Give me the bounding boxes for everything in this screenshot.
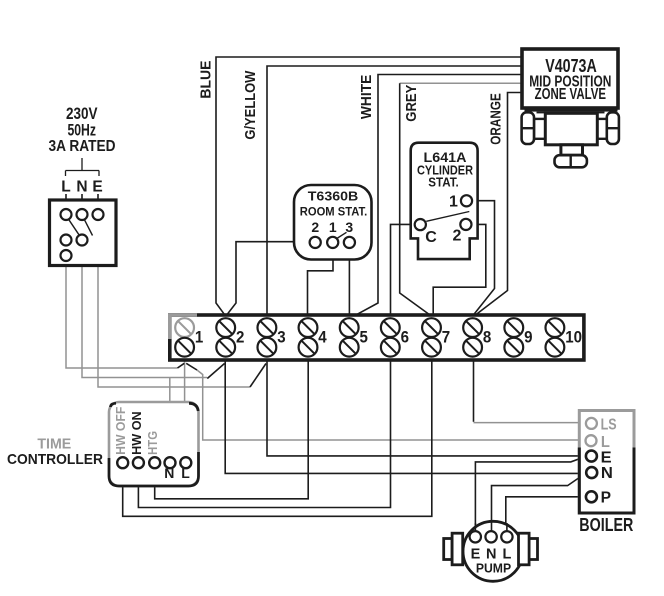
- svg-text:ZONE VALVE: ZONE VALVE: [535, 86, 607, 103]
- svg-text:TIME: TIME: [37, 435, 71, 452]
- svg-text:GREY: GREY: [403, 85, 420, 122]
- svg-text:8: 8: [483, 328, 491, 346]
- svg-text:BOILER: BOILER: [579, 514, 633, 535]
- svg-text:HW OFF: HW OFF: [114, 406, 128, 455]
- svg-text:C: C: [425, 229, 437, 246]
- svg-text:BLUE: BLUE: [198, 61, 215, 99]
- svg-text:LS: LS: [601, 417, 617, 434]
- svg-text:50Hz: 50Hz: [67, 121, 96, 140]
- svg-text:PUMP: PUMP: [476, 560, 511, 575]
- svg-text:10: 10: [565, 328, 582, 346]
- svg-text:2: 2: [236, 328, 244, 346]
- svg-text:G/YELLOW: G/YELLOW: [242, 70, 259, 140]
- svg-text:N: N: [164, 465, 174, 481]
- svg-text:N: N: [601, 465, 613, 482]
- svg-text:HW ON: HW ON: [130, 411, 144, 455]
- svg-text:6: 6: [401, 328, 409, 346]
- svg-text:HTG: HTG: [146, 431, 160, 455]
- svg-text:2: 2: [453, 228, 462, 245]
- svg-text:WHITE: WHITE: [358, 75, 375, 120]
- svg-text:E: E: [601, 449, 612, 466]
- svg-text:1: 1: [449, 194, 458, 211]
- svg-text:P: P: [601, 490, 612, 507]
- svg-text:1: 1: [329, 219, 337, 235]
- svg-text:7: 7: [442, 328, 450, 346]
- svg-text:E: E: [92, 179, 102, 196]
- svg-text:T6360B: T6360B: [308, 188, 359, 203]
- svg-text:L: L: [181, 465, 190, 481]
- svg-text:1: 1: [195, 328, 203, 346]
- svg-text:L: L: [601, 434, 610, 451]
- svg-text:L: L: [61, 179, 70, 196]
- svg-text:3: 3: [345, 219, 353, 235]
- svg-text:4: 4: [318, 328, 326, 346]
- svg-text:3A RATED: 3A RATED: [49, 138, 116, 155]
- svg-text:N: N: [76, 179, 87, 196]
- svg-text:STAT.: STAT.: [428, 175, 459, 190]
- svg-text:5: 5: [360, 328, 368, 346]
- svg-text:ROOM STAT.: ROOM STAT.: [300, 207, 368, 219]
- svg-text:2: 2: [311, 219, 319, 235]
- svg-text:ORANGE: ORANGE: [487, 93, 504, 145]
- svg-text:3: 3: [277, 328, 285, 346]
- svg-text:9: 9: [524, 328, 532, 346]
- svg-text:CONTROLLER: CONTROLLER: [7, 451, 103, 468]
